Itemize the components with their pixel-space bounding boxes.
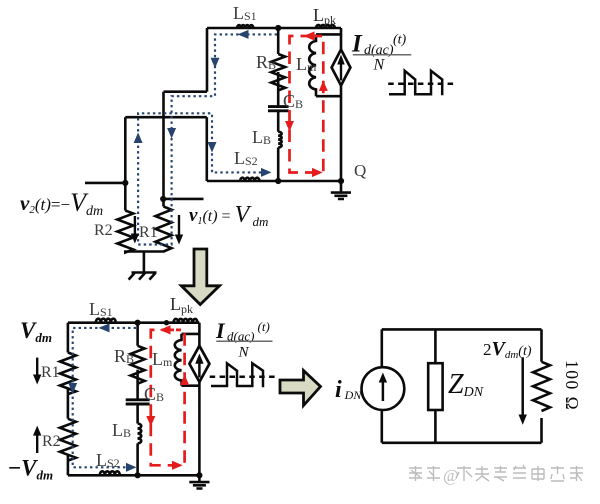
svg-text:(t): (t): [393, 33, 407, 48]
waveform Id (bottom): [210, 375, 276, 378]
svg-text:R2: R2: [42, 433, 61, 450]
blue arrow top (left, bottom schematic): [99, 323, 110, 332]
inductor Lpk: [316, 25, 335, 28]
blue arrow top (left): [238, 30, 249, 39]
node middle-bottom junction (bottom): [135, 472, 141, 478]
inductor Ls2: [240, 178, 260, 181]
red arrow right (up, bottom): [180, 375, 189, 386]
node middle-top junction (bottom): [135, 320, 141, 326]
ground chassis: [129, 273, 157, 280]
inductor Ls1 (bottom): [96, 319, 116, 323]
wire middle branch upper: [136, 323, 139, 346]
label Id(ac)(t)/N (bottom): [215, 318, 273, 361]
wire v2 stub: [85, 182, 125, 185]
blue arrow step (down): [208, 142, 217, 153]
svg-text:I: I: [351, 31, 363, 58]
wire CB to LB: [277, 112, 280, 132]
svg-text:N: N: [373, 57, 386, 74]
inductor Ls1: [237, 25, 253, 28]
wire left vertical upper: [206, 28, 209, 92]
node v1 junction: [160, 196, 166, 202]
wire mid horizontal: [125, 116, 207, 119]
wire eq middle segments: [434, 329, 437, 442]
current source U2 diamond (bottom): [189, 346, 209, 382]
inductor Lpk (bottom): [174, 319, 198, 323]
wire ground stem: [143, 252, 146, 273]
red arrow bottom (right, bottom): [172, 461, 183, 470]
resistor 100ohm: [533, 362, 550, 411]
magnetizing loop red dashed (top schematic): [290, 36, 324, 173]
wire resistor bottom bar: [124, 250, 165, 253]
transformation arrow (down, khaki): [181, 249, 219, 305]
wire Lm top link (bottom): [182, 333, 200, 336]
blue arrow left vertical (down): [211, 58, 220, 69]
wire step-down vertical: [206, 117, 209, 181]
red arrow left (down, bottom): [146, 416, 155, 427]
blue arrow R1 side (down): [167, 128, 176, 139]
ground earth at Q: [331, 181, 351, 199]
red arrow top (left): [304, 31, 315, 40]
watermark characters: [456, 465, 583, 481]
wire top horizontal: [68, 321, 200, 324]
node Q junction: [338, 178, 344, 184]
wire Lm top link: [316, 33, 341, 36]
wire v1 stub: [163, 198, 204, 201]
wire left rail segments: [67, 323, 70, 476]
svg-text:N: N: [238, 345, 250, 361]
wire Lm bottom link (bottom): [182, 384, 200, 387]
node before Lpk (bottom): [164, 320, 169, 325]
resistor RB (bottom): [131, 346, 145, 384]
impedance ZDN box: [428, 363, 442, 410]
inductor LB: [278, 132, 281, 148]
inductor Lm: [309, 34, 316, 96]
ground earth (bottom): [189, 475, 209, 488]
node v2 junction: [122, 180, 128, 186]
red arrow right (up): [319, 81, 328, 92]
capacitor CB: [268, 107, 289, 111]
red arrow top (left, bottom): [160, 325, 171, 334]
watermark zhihu: [409, 466, 440, 481]
dm noise path blue loop (top schematic): [138, 34, 277, 244]
blue arrow R2 side (up): [134, 133, 143, 144]
arrow R2 direction (up): [36, 433, 38, 454]
wire eq bottom: [382, 441, 542, 444]
wire CB to LB: [136, 405, 139, 423]
arrow 2Vdm direction (down): [521, 357, 524, 417]
svg-text:R2: R2: [94, 222, 113, 239]
svg-text:R1: R1: [41, 364, 60, 381]
svg-text:Q: Q: [354, 161, 366, 180]
arrow R1 direction (down): [36, 358, 38, 378]
wire to R1: [162, 92, 165, 207]
resistor R1 (bottom): [60, 353, 76, 395]
blue arrow bottom (right): [261, 168, 272, 177]
wire RB branch upper: [277, 28, 280, 54]
wire to R2: [124, 117, 127, 210]
label Id(ac)(t)/N (top): [351, 31, 411, 74]
svg-text:R1: R1: [139, 224, 158, 241]
capacitor CB (bottom): [126, 400, 150, 404]
magnetizing loop red dashed (bottom schematic): [151, 330, 185, 465]
node at Ls1-RB junction: [275, 25, 281, 31]
wire eq left segments: [380, 329, 383, 442]
svg-text:@: @: [443, 466, 459, 485]
arrow v1 direction (down): [178, 215, 180, 237]
svg-text:(t): (t): [258, 319, 270, 334]
wire step horizontal: [164, 90, 208, 93]
blue arrow left (down, bottom schematic): [68, 383, 77, 394]
wire top horizontal: [207, 27, 341, 30]
wire bottom horizontal: [68, 474, 200, 477]
resistor R2 (bottom): [60, 419, 76, 461]
wire bottom horizontal: [207, 180, 341, 183]
waveform Id (top): [388, 82, 455, 85]
svg-text:I: I: [215, 318, 226, 343]
inductor Ls2 (bottom): [100, 471, 120, 475]
wire Lm bottom link: [316, 95, 341, 98]
node LB bottom junction: [275, 178, 281, 184]
resistor RB: [271, 54, 285, 90]
current source U1 diamond: [332, 50, 351, 86]
arrow v2 direction (down): [134, 216, 136, 236]
inductor LB (bottom): [138, 424, 142, 444]
resistor R2: [117, 211, 133, 253]
red arrow bottom (right): [312, 168, 323, 177]
svg-text:100 Ω: 100 Ω: [562, 360, 582, 411]
wire RB to CB: [277, 72, 280, 105]
wire LB to bottom: [136, 443, 139, 475]
blue arrow bottom (right, bottom schematic): [126, 463, 137, 472]
inductor Lm (bottom): [175, 334, 182, 386]
wire right vertical: [340, 28, 343, 181]
resistor R1: [156, 207, 172, 252]
wire LB to bottom: [277, 148, 280, 182]
node right-bottom junction (bottom): [196, 472, 202, 478]
dm noise path blue loop (bottom schematic): [73, 328, 136, 467]
current source iDN circle: [362, 367, 405, 410]
wire eq top: [382, 328, 542, 331]
red arrow left (down): [285, 121, 294, 132]
wire eq right segments: [540, 329, 543, 442]
transformation arrow (right, khaki): [280, 371, 321, 406]
wire RB to CB: [136, 370, 139, 399]
wire right vertical: [198, 323, 201, 476]
